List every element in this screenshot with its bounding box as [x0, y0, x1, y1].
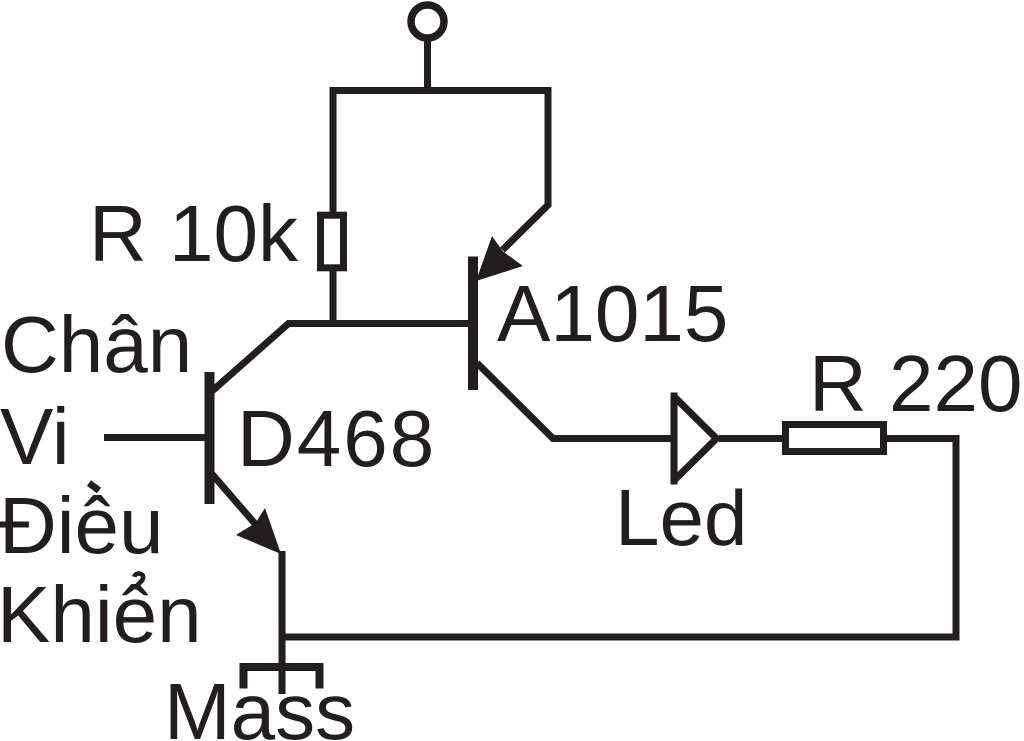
- svg-text:Điêu: Điêu: [0, 481, 164, 570]
- svg-text:Khiên: Khiên: [0, 570, 202, 659]
- wire bottom rail and right rail up to R 220: [282, 439, 956, 638]
- wire D468 emitter shaft: [212, 474, 257, 526]
- ground symbol (Mass): [244, 667, 320, 689]
- hook accent of ể in Khiển: [134, 574, 143, 590]
- transistor Q2 (D468) bar: [205, 372, 215, 504]
- arrowhead A1015 emitter: [476, 236, 523, 281]
- power terminal circle: [411, 5, 444, 38]
- LED D1 triangle cathode-side vertical edge: [671, 393, 678, 485]
- wire D468 emitter to ground rail: [279, 551, 286, 694]
- svg-text:Mass: Mass: [164, 667, 355, 741]
- resistor R2 (R 220) body: [786, 425, 884, 452]
- svg-text:Chân: Chân: [1, 300, 192, 389]
- svg-text:Led: Led: [615, 473, 747, 562]
- svg-text:D468: D468: [237, 394, 436, 483]
- wire top rail with left drop to R1 and right drop to Q1 emitter: [333, 91, 548, 251]
- svg-text:R 10k: R 10k: [89, 189, 299, 278]
- wire R1 bottom to base node: [330, 268, 337, 326]
- svg-text:R 220: R 220: [809, 339, 1022, 428]
- wire A1015 collector to LED: [477, 363, 672, 439]
- arrowhead D468 emitter: [236, 508, 281, 554]
- wire terminal to top rail: [424, 40, 431, 94]
- wire LED to R2: [719, 435, 784, 442]
- resistor R1 (R 10k) body: [321, 215, 344, 268]
- LED D1 triangle angled edges: [674, 397, 717, 481]
- transistor Q1 (A1015) bar: [468, 257, 478, 391]
- wire node to A1015 base and D468 collector: [211, 324, 469, 393]
- grave accent of ề in Điều: [89, 483, 99, 491]
- svg-text:Vi: Vi: [0, 392, 70, 481]
- wire D468 base lead: [104, 434, 205, 441]
- svg-text:A1015: A1015: [497, 269, 728, 358]
